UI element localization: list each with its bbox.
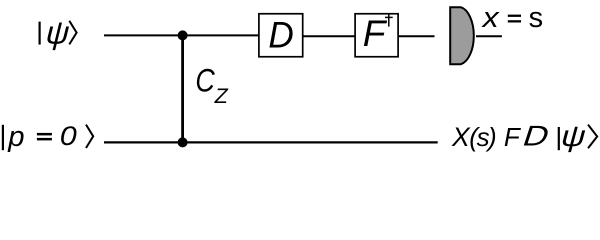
svg-text:F: F [363, 13, 388, 54]
measurement output wire [476, 35, 502, 37]
svg-text:0: 0 [60, 121, 77, 151]
svg-text:s: s [529, 2, 544, 34]
label x = s (measurement result) [480, 2, 543, 34]
wire bottom qubit [104, 141, 438, 143]
svg-text:D: D [268, 14, 293, 56]
label Cz [195, 63, 228, 109]
svg-text:x: x [480, 2, 500, 34]
svg-text:Z: Z [214, 84, 229, 108]
ket label |p = 0> (bottom-left input state) [3, 121, 93, 153]
CZ control dot top [178, 30, 188, 40]
gate box D [259, 14, 303, 57]
CZ gate vertical link [181, 35, 184, 142]
gate box F dagger [355, 13, 398, 57]
CZ control dot bottom [178, 137, 188, 147]
svg-text:p: p [7, 121, 24, 153]
svg-text:X: X [451, 122, 471, 152]
wire F to measurement [399, 35, 435, 37]
measurement detector (gray D-shape) [450, 7, 474, 64]
svg-text:F: F [504, 122, 522, 152]
ket label |psi> (top-left input state) [40, 15, 77, 51]
wire top qubit: label to D gate [104, 34, 259, 36]
wire D to F [303, 35, 355, 37]
svg-text:C: C [195, 63, 215, 99]
output state label X(s) F D |psi> [451, 120, 597, 152]
